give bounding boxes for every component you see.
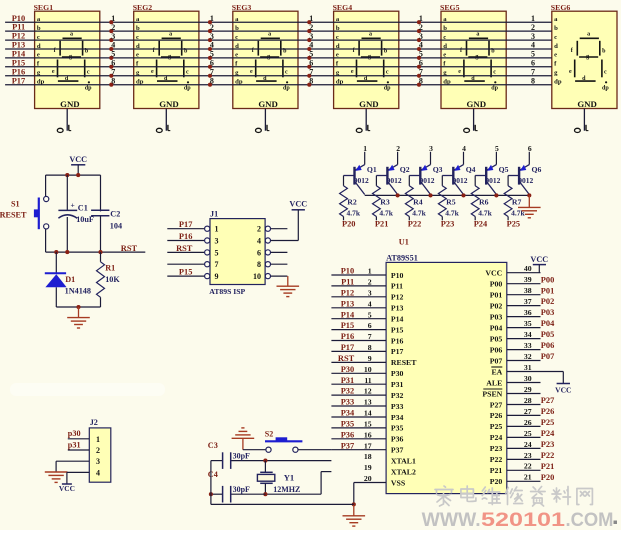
- wire: net 1 to Q1 emitter: [364, 152, 366, 165]
- net label P11: [12, 23, 25, 32]
- svg-text:6: 6: [210, 59, 214, 68]
- bus junction dots column 1 with pin numbers 1-8: [109, 14, 115, 87]
- svg-text:a: a: [369, 31, 372, 37]
- wire: J1 pin 5: [167, 244, 209, 255]
- transistor Q6 9012 (PNP): [508, 165, 541, 195]
- svg-text:17: 17: [364, 441, 372, 450]
- svg-text:P37: P37: [391, 446, 404, 455]
- ground (reset circuit): [67, 307, 90, 328]
- svg-text:28: 28: [524, 396, 532, 405]
- svg-text:1: 1: [309, 14, 313, 23]
- junction: ground stem: [76, 305, 80, 309]
- svg-text:P11: P11: [391, 282, 403, 291]
- svg-text:VCC: VCC: [485, 269, 502, 278]
- svg-text:19: 19: [364, 463, 372, 472]
- svg-text:R5: R5: [446, 197, 456, 206]
- svg-text:40: 40: [524, 264, 532, 273]
- svg-text:7: 7: [531, 68, 535, 77]
- svg-text:4: 4: [257, 237, 261, 246]
- svg-text:8: 8: [419, 76, 423, 85]
- wire: J2 pin 4 to VCC: [67, 472, 89, 484]
- wire: segment bus line d (P13): [5, 48, 552, 50]
- svg-text:a: a: [70, 31, 73, 37]
- wire: SEG3 GND pin down: [264, 109, 266, 131]
- svg-text:9012: 9012: [387, 176, 402, 185]
- wire: U1 pin 35: [507, 319, 555, 328]
- wire: reset top rail: [46, 174, 101, 176]
- wire: net 5 to Q5 emitter: [495, 152, 497, 165]
- svg-text:P12: P12: [391, 293, 404, 302]
- wire: S2 to U1 pin 17 (P37): [298, 449, 331, 451]
- svg-text:dp: dp: [85, 86, 92, 92]
- wire: U1 pin 39: [507, 275, 555, 284]
- svg-text:J1: J1: [210, 209, 218, 218]
- svg-text:18: 18: [364, 452, 372, 461]
- net label P16: [12, 67, 26, 76]
- svg-text:P01: P01: [490, 291, 503, 300]
- wire: SEG4 GND pin down: [365, 109, 367, 131]
- wire: U1 pin 24: [507, 440, 555, 449]
- transistor Q1 9012 (PNP): [344, 165, 377, 195]
- svg-text:P12: P12: [12, 32, 26, 41]
- wire: U1 pin 29: [507, 385, 541, 394]
- svg-text:d: d: [554, 43, 558, 50]
- svg-text:VCC: VCC: [59, 484, 75, 493]
- svg-text:1: 1: [96, 435, 100, 444]
- svg-text:P13: P13: [12, 41, 26, 50]
- svg-text:dp: dp: [384, 86, 391, 92]
- svg-text:c: c: [87, 70, 90, 76]
- svg-text:a: a: [268, 31, 271, 37]
- svg-text:Y1: Y1: [284, 473, 295, 483]
- wire: U1 pin 2: [331, 278, 386, 287]
- svg-text:AT89S51: AT89S51: [386, 254, 418, 263]
- svg-text:Q2: Q2: [400, 165, 410, 174]
- net label P21: [375, 220, 389, 229]
- svg-text:P31: P31: [391, 380, 404, 389]
- svg-text:c: c: [285, 70, 288, 76]
- svg-text:7: 7: [215, 260, 219, 269]
- svg-text:P21: P21: [375, 220, 389, 229]
- svg-text:P05: P05: [490, 334, 503, 343]
- svg-text:P16: P16: [341, 332, 355, 341]
- svg-text:14: 14: [364, 409, 372, 418]
- svg-text:15: 15: [364, 420, 372, 429]
- junction: VCC stem: [76, 173, 80, 177]
- svg-text:Q4: Q4: [466, 165, 476, 174]
- resistor R2 4.7k: [340, 176, 361, 221]
- svg-text:P14: P14: [341, 310, 355, 319]
- watermark: website url: [422, 509, 617, 531]
- pin number 20: [364, 474, 372, 483]
- wire: net 4 to Q4 emitter: [463, 152, 465, 165]
- seven-segment display SEG1: [34, 3, 100, 109]
- svg-text:P04: P04: [541, 319, 555, 328]
- svg-text:10: 10: [253, 272, 261, 281]
- svg-text:SEG6: SEG6: [551, 3, 571, 12]
- svg-text:104: 104: [110, 221, 122, 230]
- svg-text:dp: dp: [184, 86, 191, 92]
- svg-text:P10: P10: [391, 271, 404, 280]
- svg-text:1: 1: [210, 14, 214, 23]
- wire: U1 pin 27: [507, 407, 555, 416]
- svg-text:9: 9: [368, 354, 372, 363]
- svg-text:P30: P30: [341, 365, 355, 374]
- wire: J1 pin 7: [167, 262, 209, 267]
- wire: U1 pin 6: [331, 321, 386, 330]
- svg-text:6: 6: [257, 248, 261, 257]
- svg-text:P37: P37: [341, 441, 355, 450]
- svg-text:9: 9: [215, 272, 219, 281]
- svg-text:VCC: VCC: [69, 155, 87, 164]
- svg-text:4: 4: [111, 41, 115, 50]
- svg-text:5: 5: [368, 310, 372, 319]
- svg-text:11: 11: [364, 376, 371, 385]
- svg-text:4: 4: [462, 144, 466, 153]
- svg-text:P11: P11: [341, 278, 354, 287]
- svg-text:dp: dp: [554, 79, 562, 86]
- svg-text:5: 5: [210, 50, 214, 59]
- svg-text:20: 20: [364, 474, 372, 483]
- capacitor C1 10uF (electrolytic): [58, 175, 94, 252]
- wire: U1 pin 4: [331, 299, 386, 308]
- svg-text:30pF: 30pF: [233, 485, 250, 494]
- svg-text:2: 2: [96, 446, 100, 455]
- wire: U1 pin 16: [331, 430, 386, 439]
- svg-text:AT89S ISP: AT89S ISP: [209, 287, 245, 296]
- resistor R6 4.7k: [471, 176, 492, 221]
- svg-text:b: b: [554, 25, 558, 32]
- wire: XTAL1 row (pin 18): [231, 460, 332, 462]
- svg-text:7: 7: [419, 68, 423, 77]
- wire: U1 pin 23: [507, 451, 555, 460]
- wire: net 6 to Q6 emitter: [528, 152, 530, 165]
- svg-text:RST: RST: [121, 244, 138, 253]
- svg-text:12MHZ: 12MHZ: [273, 485, 300, 494]
- seven-segment display SEG2: [133, 3, 199, 109]
- svg-text:SEG2: SEG2: [133, 3, 153, 12]
- svg-text:8: 8: [210, 76, 214, 85]
- svg-text:P04: P04: [490, 323, 503, 332]
- wire: J1 pin 3: [167, 232, 209, 243]
- wire: U1 pin 38: [507, 286, 555, 295]
- svg-text:g: g: [475, 54, 478, 60]
- svg-text:6: 6: [368, 321, 372, 330]
- wire: U1 pin 32: [507, 352, 555, 361]
- svg-text:+: +: [71, 200, 75, 209]
- svg-text:4.7k: 4.7k: [478, 208, 492, 217]
- svg-text:P25: P25: [541, 418, 555, 427]
- pin number 18: [364, 452, 372, 461]
- svg-text:39: 39: [524, 275, 532, 284]
- svg-text:VCC: VCC: [289, 200, 307, 209]
- svg-text:RESET: RESET: [391, 358, 417, 367]
- svg-text:P03: P03: [541, 308, 555, 317]
- resistor R1 10K: [97, 252, 121, 307]
- svg-text:P36: P36: [341, 430, 355, 439]
- wire: J1 pin 10: [265, 274, 287, 279]
- watermark: chinese characters: [435, 486, 592, 506]
- svg-text:dp: dp: [283, 86, 290, 92]
- wire: U1 pin 21: [507, 473, 555, 482]
- wire: U1 pin 7: [331, 332, 386, 341]
- svg-text:P33: P33: [391, 402, 404, 411]
- svg-text:3: 3: [111, 32, 115, 41]
- svg-text:e: e: [569, 69, 572, 75]
- power symbol VCC (reset circuit): [69, 155, 87, 175]
- wire: U1 pin 1: [331, 267, 386, 276]
- bus junction dots column 4 with pin numbers 1-8: [417, 14, 423, 87]
- svg-text:S1: S1: [11, 199, 20, 208]
- junction: R1 top: [98, 250, 102, 254]
- svg-text:7: 7: [111, 68, 115, 77]
- svg-text:Q1: Q1: [367, 165, 377, 174]
- wire: segment bus line dp (P17): [5, 84, 552, 86]
- svg-text:g: g: [267, 54, 270, 60]
- svg-text:a: a: [169, 31, 172, 37]
- svg-text:3: 3: [210, 32, 214, 41]
- svg-text:22: 22: [524, 462, 532, 471]
- svg-text:g: g: [168, 54, 171, 60]
- svg-text:29: 29: [524, 385, 532, 394]
- svg-text:P27: P27: [541, 396, 555, 405]
- wire: U1 pin 10: [331, 365, 386, 374]
- junction: Q3 collector on rail: [428, 193, 432, 197]
- wire: J1 pin 1: [167, 220, 209, 231]
- net label RST: [121, 244, 138, 253]
- junction: C1 top: [65, 173, 69, 177]
- svg-text:2: 2: [419, 23, 423, 32]
- svg-text:34: 34: [524, 330, 532, 339]
- wire: J1 pin 4: [265, 238, 298, 243]
- svg-text:P03: P03: [490, 312, 503, 321]
- svg-text:1N4148: 1N4148: [65, 287, 91, 296]
- junction: D1 top: [54, 250, 58, 254]
- svg-text:2: 2: [111, 23, 115, 32]
- svg-text:6: 6: [531, 59, 535, 68]
- svg-text:33: 33: [524, 341, 532, 350]
- svg-text:a: a: [476, 31, 479, 37]
- svg-text:4.7k: 4.7k: [379, 208, 393, 217]
- net label P23: [441, 220, 455, 229]
- net label 6 (transistor Q6 top): [528, 144, 532, 153]
- svg-text:P00: P00: [490, 280, 503, 289]
- svg-text:P20: P20: [490, 477, 503, 486]
- svg-text:26: 26: [524, 418, 532, 427]
- wire: segment bus line c (P12): [5, 39, 552, 41]
- wire: segment bus line a (P10): [5, 21, 552, 23]
- svg-text:9012: 9012: [485, 176, 500, 185]
- capacitor C4 30pF: [208, 470, 266, 502]
- net label 5 (transistor Q5 top): [495, 144, 499, 153]
- svg-text:SEG5: SEG5: [440, 3, 460, 12]
- seven-segment display SEG3: [232, 3, 298, 109]
- svg-text:P22: P22: [541, 451, 555, 460]
- net label 1 (rotated) under SEG1: [57, 125, 71, 133]
- svg-text:P07: P07: [490, 356, 503, 365]
- svg-text:C4: C4: [208, 470, 218, 479]
- svg-text:VSS: VSS: [391, 478, 405, 487]
- svg-text:1: 1: [419, 14, 423, 23]
- bus junction dots column 2 with pin numbers 1-8: [208, 14, 214, 87]
- svg-text:P22: P22: [408, 220, 422, 229]
- capacitor C2 104: [91, 175, 122, 252]
- wire: J1 pin 8: [265, 262, 287, 267]
- ground (J2 pin 3): [45, 472, 68, 482]
- svg-text:P31: P31: [341, 376, 355, 385]
- svg-text:WWW.: WWW.: [422, 509, 481, 530]
- svg-text:e: e: [458, 69, 461, 75]
- transistor Q3 9012 (PNP): [409, 165, 442, 195]
- svg-text:3: 3: [215, 237, 219, 246]
- svg-text:EA: EA: [491, 367, 502, 376]
- svg-text:c: c: [386, 70, 389, 76]
- svg-text:.COM: .COM: [566, 509, 614, 530]
- svg-text:24: 24: [524, 440, 532, 449]
- svg-text:P24: P24: [474, 220, 488, 229]
- svg-text:SEG3: SEG3: [232, 3, 252, 12]
- power symbol VCC (J1 pin 4): [289, 200, 307, 241]
- svg-text:7: 7: [210, 68, 214, 77]
- svg-text:p31: p31: [68, 440, 81, 449]
- svg-text:8: 8: [531, 76, 535, 85]
- svg-text:Q5: Q5: [499, 165, 509, 174]
- svg-text:VCC: VCC: [530, 255, 548, 264]
- svg-text:5: 5: [495, 144, 499, 153]
- net label P15: [12, 58, 26, 67]
- svg-text:GND: GND: [258, 99, 278, 109]
- svg-text:4.7k: 4.7k: [445, 208, 459, 217]
- svg-text:P10: P10: [12, 14, 26, 23]
- wire: U1 pin 22: [507, 462, 555, 471]
- svg-text:3: 3: [429, 144, 433, 153]
- svg-text:7: 7: [368, 332, 372, 341]
- svg-text:23: 23: [524, 451, 532, 460]
- wire: XTAL2 row (pin 19): [265, 472, 331, 495]
- junction: Q6 collector on rail: [527, 193, 531, 197]
- wire: net 2 to Q2 emitter: [397, 152, 399, 165]
- svg-text:GND: GND: [359, 99, 379, 109]
- svg-text:1: 1: [363, 144, 367, 153]
- svg-text:P17: P17: [341, 343, 355, 352]
- svg-text:P05: P05: [541, 330, 555, 339]
- wire: U1 pin 28: [507, 396, 555, 405]
- svg-text:P34: P34: [341, 409, 355, 418]
- wire: U1 pin 26: [507, 418, 555, 427]
- svg-text:J2: J2: [90, 418, 98, 427]
- net label 6 (rotated) under SEG6: [575, 125, 589, 133]
- wire: U1 pin 34: [507, 330, 555, 339]
- junction: Q4 collector on rail: [461, 193, 465, 197]
- net label 4 (transistor Q4 top): [462, 144, 466, 153]
- wire: U1 pin 8: [331, 343, 386, 352]
- svg-text:P26: P26: [541, 407, 555, 416]
- capacitor C3 30pF: [208, 441, 250, 469]
- svg-text:P14: P14: [391, 315, 404, 324]
- svg-text:P34: P34: [391, 413, 404, 422]
- svg-text:9012: 9012: [453, 176, 468, 185]
- connector J2: [89, 418, 111, 482]
- pushbutton S1 RESET: [0, 175, 49, 252]
- svg-text:1: 1: [368, 267, 372, 276]
- resistor R7 4.7k: [504, 176, 525, 221]
- svg-text:16: 16: [364, 430, 372, 439]
- svg-text:36: 36: [524, 308, 532, 317]
- svg-text:C3: C3: [208, 441, 218, 450]
- svg-text:P35: P35: [391, 424, 404, 433]
- wire: J1 pin 6: [265, 250, 287, 255]
- microcontroller U1 AT89S51: [386, 238, 507, 494]
- svg-text:P12: P12: [341, 288, 355, 297]
- wire: U1 pin 36: [507, 308, 555, 317]
- svg-text:RST: RST: [338, 354, 355, 363]
- svg-text:P21: P21: [490, 466, 503, 475]
- seven-segment display SEG5: [440, 3, 506, 109]
- svg-text:P13: P13: [391, 304, 404, 313]
- svg-text:e: e: [554, 52, 557, 59]
- svg-text:P07: P07: [541, 352, 555, 361]
- svg-text:P02: P02: [490, 301, 503, 310]
- svg-text:P20: P20: [541, 473, 555, 482]
- svg-text:g: g: [368, 54, 371, 60]
- svg-text:5: 5: [215, 248, 219, 257]
- svg-text:Q6: Q6: [532, 165, 542, 174]
- wire: J1 pin 9: [167, 268, 209, 279]
- wire: SEG6 GND pin down: [583, 109, 585, 131]
- resistor R4 4.7k: [405, 176, 426, 221]
- svg-text:30: 30: [524, 374, 532, 383]
- power symbol VCC (J2 pin 4): [59, 484, 75, 493]
- svg-text:35: 35: [524, 319, 532, 328]
- wire: segment bus line b (P11): [5, 30, 552, 32]
- junction: crystal bottom / XTAL2: [263, 492, 267, 496]
- svg-text:520101: 520101: [481, 509, 565, 530]
- svg-text:9012: 9012: [518, 176, 533, 185]
- svg-text:g: g: [69, 54, 72, 60]
- wire: RST net: [46, 251, 146, 253]
- svg-text:21: 21: [524, 473, 532, 482]
- svg-text:VCC: VCC: [555, 386, 571, 395]
- wire: U1 pin 17: [331, 441, 386, 450]
- wire: U1 pin 9: [331, 354, 386, 363]
- svg-text:5: 5: [309, 50, 313, 59]
- net label P12: [12, 32, 26, 41]
- svg-text:9012: 9012: [420, 176, 435, 185]
- power symbol VCC (U1 pin 40): [530, 255, 548, 273]
- svg-text:2: 2: [531, 23, 535, 32]
- svg-text:P16: P16: [391, 336, 404, 345]
- svg-text:4.7k: 4.7k: [347, 208, 361, 217]
- net label 4 (rotated) under SEG4: [356, 125, 370, 133]
- svg-text:27: 27: [524, 407, 532, 416]
- svg-text:RESET: RESET: [0, 210, 27, 219]
- svg-text:d: d: [164, 76, 168, 82]
- wire: SEG2 GND pin down: [165, 109, 167, 131]
- svg-text:GND: GND: [577, 99, 597, 109]
- svg-text:P21: P21: [541, 462, 555, 471]
- svg-text:P20: P20: [342, 220, 356, 229]
- pushbutton S2: [243, 429, 303, 452]
- svg-text:R3: R3: [380, 197, 390, 206]
- svg-text:P17: P17: [391, 347, 404, 356]
- svg-text:P30: P30: [391, 369, 404, 378]
- svg-text:5: 5: [419, 50, 423, 59]
- wire: transistor collector rail: [365, 194, 530, 196]
- wire: SEG5 GND pin down: [473, 109, 475, 131]
- wire: segment bus line e (P14): [5, 57, 552, 59]
- svg-text:8: 8: [309, 76, 313, 85]
- svg-text:Q3: Q3: [433, 165, 443, 174]
